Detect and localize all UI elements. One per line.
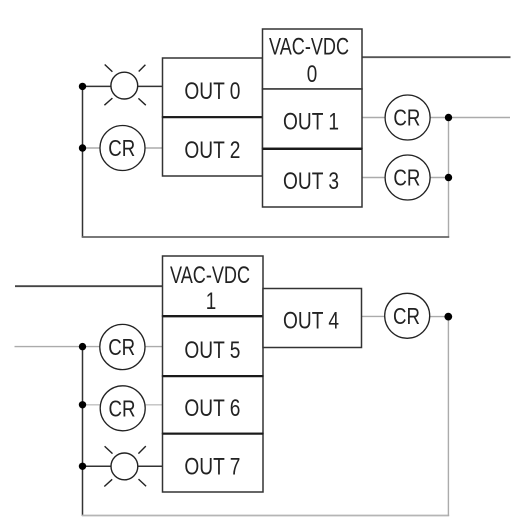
junction node at coil CR5 (79, 401, 86, 408)
wire bottom return (top circuit) (82, 236, 449, 238)
relay coil CR6 (on OUT 4) (385, 293, 430, 338)
junction node at lamp L2 (79, 463, 86, 470)
svg-text:VAC-VDC: VAC-VDC (170, 262, 250, 289)
wire coil CR2 to right rail (430, 117, 510, 119)
wire node to lamp L1 (83, 85, 112, 87)
wire left vertical bus (top circuit) (82, 86, 84, 237)
wire top rail left of VAC-VDC 1 (15, 285, 163, 287)
svg-text:OUT 6: OUT 6 (184, 395, 240, 422)
svg-text:1: 1 (206, 288, 217, 315)
terminal box OUT 4 (263, 289, 362, 348)
wire coil CR4 to OUT 5 (145, 346, 163, 348)
relay coil CR3 (on OUT 3) (385, 155, 430, 200)
lamp L2 (indicator light on OUT 7) (104, 446, 146, 486)
wire lamp L1 to OUT 0 (138, 85, 163, 87)
svg-text:CR: CR (393, 165, 420, 191)
junction node at coil CR6 output (444, 313, 452, 321)
terminal box OUT 0 (163, 58, 263, 117)
wire coil CR6 to junction (430, 316, 449, 318)
junction node at coil CR1 (79, 144, 86, 151)
svg-text:OUT 1: OUT 1 (283, 108, 339, 135)
wire coil CR1 to OUT 2 (145, 147, 163, 149)
wire left vertical bus (bottom circuit) (82, 347, 84, 516)
divider OUT 6 / OUT 7 (163, 433, 264, 435)
svg-text:VAC-VDC: VAC-VDC (269, 33, 349, 60)
relay coil CR5 (on OUT 6) (100, 386, 145, 431)
lamp L1 (indicator light on OUT 0) (104, 65, 145, 106)
wire top rail right of VAC-VDC 0 (362, 56, 511, 58)
junction node at lamp L1 (79, 83, 86, 90)
divider VAC-VDC 1 / OUT 5 (163, 315, 264, 317)
svg-text:CR: CR (108, 135, 135, 161)
svg-text:OUT 3: OUT 3 (283, 168, 339, 195)
wire OUT 1 to coil CR2 (362, 117, 386, 119)
junction node at coil CR3 output (445, 174, 452, 181)
relay coil CR2 (on OUT 1) (385, 95, 430, 140)
terminal box OUT 3 (263, 149, 363, 208)
wire right vertical bus (top circuit) (448, 118, 450, 238)
wire OUT 3 to coil CR3 (362, 177, 386, 179)
svg-text:OUT 0: OUT 0 (184, 78, 240, 105)
junction node at coil CR2 output (445, 114, 452, 121)
wire node to coil CR1 (83, 147, 101, 149)
supply box VAC-VDC 1 (163, 256, 264, 316)
svg-text:CR: CR (393, 303, 420, 329)
wire bottom return (bottom circuit) (82, 515, 449, 517)
svg-text:0: 0 (307, 61, 318, 88)
svg-text:OUT 2: OUT 2 (184, 137, 240, 164)
terminal box OUT 5 (163, 316, 264, 376)
wire coil CR5 to OUT 6 (145, 404, 163, 406)
wire left lead to coil CR4 (15, 346, 101, 348)
terminal box OUT 1 (263, 89, 363, 149)
terminal box OUT 6 (163, 376, 264, 434)
divider OUT 1 / OUT 3 (263, 148, 363, 150)
svg-text:OUT 4: OUT 4 (283, 307, 339, 334)
svg-text:OUT 7: OUT 7 (184, 453, 240, 480)
wire coil CR3 to junction (430, 177, 449, 179)
supply box VAC-VDC 0 (263, 29, 363, 89)
wire node to coil CR5 (83, 404, 101, 406)
relay coil CR1 (on OUT 2) (100, 126, 145, 171)
wire right vertical bus (bottom circuit) (447, 317, 449, 516)
svg-text:CR: CR (108, 334, 135, 360)
svg-text:OUT 5: OUT 5 (184, 337, 240, 364)
junction node at coil CR4 (79, 343, 86, 350)
svg-text:CR: CR (109, 396, 136, 422)
terminal box OUT 2 (163, 117, 263, 176)
terminal box OUT 7 (163, 434, 264, 493)
wire lamp L2 to OUT 7 (138, 465, 163, 467)
wire node to lamp L2 (83, 465, 112, 467)
relay coil CR4 (on OUT 5) (100, 324, 145, 369)
wire OUT 4 to coil CR6 (362, 315, 386, 317)
divider OUT 0 / OUT 2 (163, 116, 263, 118)
divider OUT 5 / OUT 6 (163, 375, 264, 377)
svg-text:CR: CR (393, 105, 420, 131)
